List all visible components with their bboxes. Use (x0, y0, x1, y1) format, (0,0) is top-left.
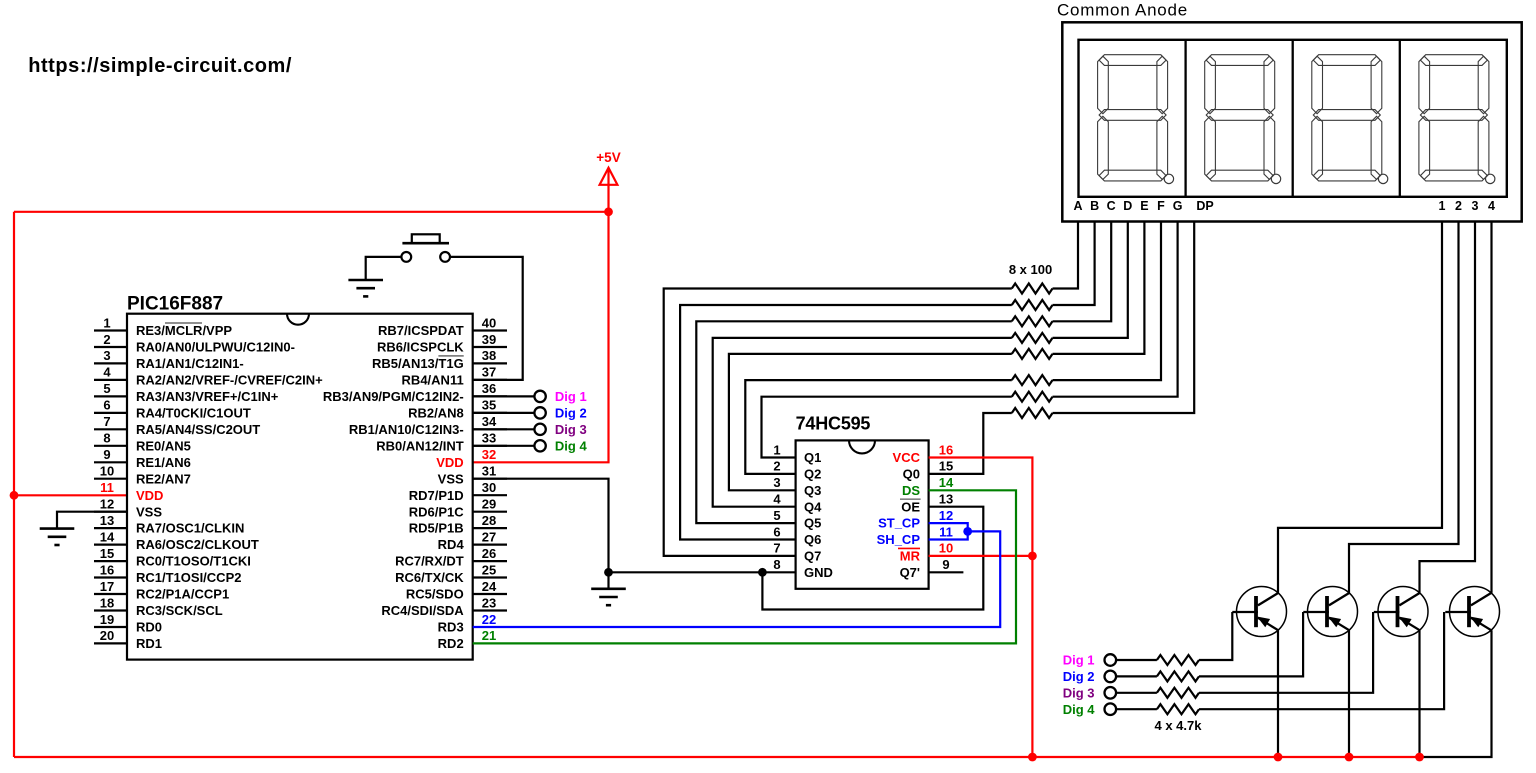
pin 19 RD0 (94, 612, 162, 635)
wire display pin 2 to transistor Q2 collector (1349, 222, 1459, 593)
wire button right to RB4 pin37 (450, 257, 523, 380)
svg-text:RA1/AN1/C12IN1-: RA1/AN1/C12IN1- (136, 356, 244, 371)
wire transistor Q3 emitter to rail (1418, 630, 1420, 757)
pin 39 RB6/ICSPCLK (377, 332, 507, 355)
pin 36 RB3/AN9/PGM/C12IN2- (323, 381, 507, 404)
wire transistor Q4 emitter to rail (1420, 630, 1492, 757)
node Dig 3 terminal (bottom) (1063, 685, 1116, 700)
svg-text:B: B (1090, 199, 1099, 213)
svg-text:RC0/T1OSO/T1CKI: RC0/T1OSO/T1CKI (136, 554, 251, 569)
pin 5 Q5 (74HC595) (773, 508, 821, 531)
push button S1 (401, 234, 450, 261)
wire MR pin10 to +5V (red) (929, 555, 1033, 557)
wire Dig 3 to resistor (1116, 692, 1157, 694)
wire VCC pin16 to +5V (red) (929, 458, 1033, 758)
pin 22 RD3 (438, 612, 497, 635)
pin 33 RB0/AN12/INT (376, 431, 507, 454)
node Dig 2 terminal (RB2) (473, 406, 587, 421)
svg-text:C: C (1107, 199, 1116, 213)
svg-text:RC5/SDO: RC5/SDO (406, 587, 464, 602)
pin 13 OE (74HC595) (901, 492, 953, 515)
pin 20 RD1 (94, 628, 162, 651)
svg-text:RE3/MCLR/VPP: RE3/MCLR/VPP (136, 323, 232, 338)
svg-text:RB5/AN13/T1G: RB5/AN13/T1G (372, 356, 464, 371)
wire resistor to display pin G (1053, 222, 1178, 397)
wire VDD pin32 to +5V (red) (473, 212, 609, 462)
wire base Q1 to resistor (1199, 612, 1232, 660)
pin 28 RD5/P1B (409, 513, 507, 536)
svg-text:RD1: RD1 (136, 636, 162, 651)
pin 27 RD4 (438, 529, 507, 552)
svg-text:VDD: VDD (436, 455, 463, 470)
pin 8 GND (74HC595) (773, 557, 833, 580)
svg-text:VSS: VSS (136, 504, 162, 519)
svg-text:MR: MR (900, 549, 921, 564)
overline OE (900, 498, 921, 500)
junction VCC bottom rail node (1028, 753, 1037, 762)
svg-text:4 x 4.7k: 4 x 4.7k (1155, 718, 1203, 733)
svg-text:Common Anode: Common Anode (1057, 1, 1188, 20)
wire display pin 3 to transistor Q3 collector (1420, 222, 1476, 593)
pin 1 Q1 (74HC595) (773, 442, 821, 465)
svg-text:3: 3 (103, 348, 110, 363)
wire GND pin8 to ground node (609, 571, 796, 573)
wire Q6 to resistor (segment B) (680, 305, 1012, 540)
svg-text:A: A (1073, 199, 1082, 213)
svg-text:Dig 4: Dig 4 (555, 438, 588, 453)
wire VSS pin31 to ground rail (473, 479, 609, 573)
overline T1G (438, 355, 463, 357)
svg-text:RE1/AN6: RE1/AN6 (136, 455, 191, 470)
svg-text:26: 26 (482, 546, 496, 561)
pin 12 VSS (94, 497, 162, 520)
pin 6 RA4/T0CKI/C1OUT (94, 398, 251, 421)
display DS1 4-digit 7-segment outer body (1062, 22, 1521, 221)
svg-text:GND: GND (804, 565, 833, 580)
ic U1 PIC16F887 body (127, 294, 473, 660)
svg-text:+5V: +5V (596, 150, 620, 165)
svg-text:RC3/SCK/SCL: RC3/SCK/SCL (136, 603, 223, 618)
junction VSS/GND node (604, 568, 613, 577)
svg-text:8: 8 (103, 431, 110, 446)
wire Dig 1 to resistor (1116, 659, 1157, 661)
svg-text:RA7/OSC1/CLKIN: RA7/OSC1/CLKIN (136, 521, 244, 536)
wire RD3 pin22 to shift clocks (blue) (473, 531, 1001, 627)
wire Q5 to resistor (segment C) (696, 321, 1012, 523)
wire resistor to display pin DP (1053, 222, 1195, 414)
svg-text:1: 1 (773, 442, 780, 457)
svg-text:9: 9 (942, 557, 949, 572)
svg-text:12: 12 (939, 508, 953, 523)
svg-text:Dig 4: Dig 4 (1063, 702, 1096, 717)
svg-text:18: 18 (100, 595, 114, 610)
svg-text:VCC: VCC (893, 450, 921, 465)
svg-text:28: 28 (482, 513, 496, 528)
transistor Q4 PNP (1445, 587, 1499, 637)
svg-text:14: 14 (100, 529, 115, 544)
svg-text:RD0: RD0 (136, 620, 162, 635)
wire Q1 to resistor (segment G) (762, 397, 1012, 458)
pin 9 Q7' (74HC595) (900, 557, 950, 580)
svg-text:RB4/AN11: RB4/AN11 (402, 373, 464, 388)
svg-text:12: 12 (100, 497, 114, 512)
pin 21 RD2 (438, 628, 497, 651)
svg-text:RA2/AN2/VREF-/CVREF/C2IN+: RA2/AN2/VREF-/CVREF/C2IN+ (136, 373, 323, 388)
wire resistor to display pin B (1053, 222, 1095, 306)
wire transistor Q2 emitter to rail (1348, 630, 1350, 757)
wire Q0 to resistor (segment DP) (929, 413, 1012, 474)
svg-text:Q1: Q1 (804, 450, 821, 465)
wire resistor to display pin A (1053, 222, 1079, 289)
wire base Q4 to resistor (1199, 612, 1444, 709)
svg-text:2: 2 (773, 459, 780, 474)
svg-text:RA3/AN3/VREF+/C1IN+: RA3/AN3/VREF+/C1IN+ (136, 389, 279, 404)
pin 7 RA5/AN4/SS/C2OUT (94, 414, 260, 437)
pin 18 RC3/SCK/SCL (94, 595, 223, 618)
display digit 2 segments (1205, 55, 1281, 184)
pin 1 RE3/MCLR/VPP (94, 315, 232, 338)
wire ST_CP pin12 (blue) (929, 523, 968, 531)
wire base Q2 to resistor (1199, 612, 1303, 676)
svg-text:Dig 1: Dig 1 (555, 389, 587, 404)
svg-text:3: 3 (773, 475, 780, 490)
wire RD2 pin21 to DS (green) (473, 490, 1016, 643)
svg-text:11: 11 (100, 480, 114, 495)
svg-text:17: 17 (100, 579, 114, 594)
wire display pin 4 to transistor Q4 collector (1490, 222, 1492, 593)
resistor R5 100 (1012, 349, 1053, 359)
svg-text:RA5/AN4/SS/C2OUT: RA5/AN4/SS/C2OUT (136, 422, 260, 437)
pin 31 VSS (438, 464, 507, 487)
pin 2 RA0/AN0/ULPWU/C12IN0- (94, 332, 295, 355)
wire +5V top rail (red) (14, 211, 609, 213)
resistor R8 100 (1012, 408, 1053, 418)
pin 35 RB2/AN8 (408, 398, 507, 421)
svg-text:6: 6 (773, 524, 780, 539)
svg-text:7: 7 (103, 414, 110, 429)
wire VDD pin11 to left rail (red) (14, 494, 127, 496)
pin 12 ST_CP (74HC595) (878, 508, 953, 531)
pin 10 RE2/AN7 (94, 464, 191, 487)
node Dig 2 terminal (bottom) (1063, 669, 1116, 684)
resistor R10 4.7k (1157, 671, 1199, 681)
resistor R3 100 (1012, 316, 1053, 326)
junction rail T3 emitter (1415, 753, 1424, 762)
svg-text:13: 13 (939, 492, 953, 507)
ground (button) (348, 279, 383, 282)
svg-text:Dig 3: Dig 3 (1063, 685, 1095, 700)
wire base Q3 to resistor (1199, 612, 1373, 693)
svg-text:Dig 1: Dig 1 (1063, 653, 1095, 668)
svg-text:22: 22 (482, 612, 496, 627)
svg-text:32: 32 (482, 447, 496, 462)
svg-text:Q2: Q2 (804, 467, 821, 482)
svg-text:DP: DP (1196, 199, 1213, 213)
svg-text:F: F (1157, 199, 1165, 213)
display cell divider 2 (1292, 40, 1294, 197)
svg-text:RB6/ICSPCLK: RB6/ICSPCLK (377, 340, 464, 355)
svg-text:RE0/AN5: RE0/AN5 (136, 438, 191, 453)
pin 30 RD7/P1D (409, 480, 507, 503)
pin 25 RC6/TX/CK (395, 562, 507, 585)
svg-text:Q3: Q3 (804, 483, 821, 498)
pin 32 VDD (436, 447, 496, 470)
resistor R11 4.7k (1157, 688, 1199, 698)
svg-text:27: 27 (482, 529, 496, 544)
svg-text:RC6/TX/CK: RC6/TX/CK (395, 570, 464, 585)
svg-text:RD6/P1C: RD6/P1C (409, 504, 465, 519)
svg-text:39: 39 (482, 332, 496, 347)
svg-text:Dig 3: Dig 3 (555, 422, 587, 437)
svg-text:Q0: Q0 (903, 467, 920, 482)
svg-text:RB0/AN12/INT: RB0/AN12/INT (376, 438, 463, 453)
svg-text:4: 4 (773, 492, 781, 507)
svg-text:VDD: VDD (136, 488, 163, 503)
svg-text:RA6/OSC2/CLKOUT: RA6/OSC2/CLKOUT (136, 537, 259, 552)
pin 37 RB4/AN11 (402, 365, 507, 388)
pin 2 Q2 (74HC595) (773, 459, 821, 482)
pin 4 Q4 (74HC595) (773, 492, 822, 515)
svg-text:D: D (1123, 199, 1132, 213)
junction VDD pin11 node (10, 491, 19, 500)
svg-text:SH_CP: SH_CP (877, 532, 921, 547)
svg-text:OE: OE (901, 499, 920, 514)
ground (74HC595 GND) (591, 572, 626, 605)
pin 14 DS (74HC595) (902, 475, 954, 498)
junction MR/VCC node (1028, 552, 1037, 561)
svg-text:5: 5 (773, 508, 780, 523)
pin 5 RA3/AN3/VREF+/C1IN+ (94, 381, 279, 404)
svg-text:3: 3 (1472, 199, 1479, 213)
svg-text:4: 4 (1488, 199, 1495, 213)
svg-text:34: 34 (482, 414, 497, 429)
pin 4 RA2/AN2/VREF-/CVREF/C2IN+ (94, 365, 323, 388)
overline MCLR (165, 322, 202, 324)
svg-text:RB1/AN10/C12IN3-: RB1/AN10/C12IN3- (349, 422, 464, 437)
svg-text:74HC595: 74HC595 (796, 414, 871, 434)
display cell divider 1 (1184, 40, 1186, 197)
wire +5V left rail (red) (13, 212, 15, 757)
resistor R7 100 (1012, 392, 1053, 402)
junction +5V arrow node (604, 207, 613, 216)
pin 6 Q6 (74HC595) (773, 524, 821, 547)
svg-text:Q7': Q7' (900, 565, 920, 580)
svg-text:RE2/AN7: RE2/AN7 (136, 471, 191, 486)
svg-text:Dig 2: Dig 2 (1063, 669, 1095, 684)
power +5V supply symbol (596, 150, 620, 212)
svg-text:RC4/SDI/SDA: RC4/SDI/SDA (381, 603, 464, 618)
pin 9 RE1/AN6 (94, 447, 191, 470)
pin 14 RA6/OSC2/CLKOUT (94, 529, 259, 552)
svg-text:RB2/AN8: RB2/AN8 (408, 406, 464, 421)
svg-text:E: E (1140, 199, 1148, 213)
pin 8 RE0/AN5 (94, 431, 191, 454)
svg-text:33: 33 (482, 431, 496, 446)
wire +5V bottom rail (red) (14, 756, 1420, 758)
pin 23 RC4/SDI/SDA (381, 595, 507, 618)
svg-text:G: G (1173, 199, 1183, 213)
wire Dig 4 to resistor (1116, 708, 1157, 710)
node Dig 3 terminal (RB1) (473, 422, 587, 437)
svg-text:40: 40 (482, 315, 496, 330)
wire display pin 1 to transistor Q1 collector (1278, 222, 1442, 593)
wire Q2 to resistor (segment F) (745, 380, 1012, 474)
ground (VSS pin12) (40, 527, 75, 530)
pin 11 SH_CP (74HC595) (877, 524, 953, 547)
wire Q3 to resistor (segment E) (729, 354, 1012, 490)
pin 26 RC7/RX/DT (395, 546, 507, 569)
svg-text:2: 2 (1455, 199, 1462, 213)
svg-text:RD3: RD3 (438, 620, 464, 635)
svg-text:15: 15 (100, 546, 114, 561)
pin 16 VCC (74HC595) (893, 442, 954, 465)
wire transistor Q1 emitter to rail (1277, 630, 1279, 757)
svg-text:13: 13 (100, 513, 114, 528)
svg-text:RA4/T0CKI/C1OUT: RA4/T0CKI/C1OUT (136, 406, 251, 421)
wire resistor to display pin D (1053, 222, 1128, 338)
ic U2 74HC595 body (796, 414, 929, 589)
svg-text:RD4: RD4 (438, 537, 465, 552)
resistor R4 100 (1012, 333, 1053, 343)
wire button left to ground (366, 257, 402, 280)
node Dig 1 terminal (bottom) (1063, 653, 1116, 668)
svg-text:Q4: Q4 (804, 499, 822, 514)
svg-text:23: 23 (482, 595, 496, 610)
display digit 3 segments (1312, 55, 1388, 184)
svg-text:7: 7 (773, 541, 780, 556)
resistor R1 100 (1012, 284, 1053, 294)
svg-text:35: 35 (482, 398, 496, 413)
wire Q7 to resistor (segment A) (664, 289, 1012, 556)
wire OE pin13 to GND (762, 507, 983, 610)
svg-text:8: 8 (773, 557, 780, 572)
display digit 1 segments (1098, 55, 1174, 184)
wire resistor to display pin E (1053, 222, 1145, 354)
display cell divider 3 (1399, 40, 1401, 197)
pin 15 Q0 (74HC595) (903, 459, 954, 482)
svg-text:25: 25 (482, 562, 496, 577)
svg-text:16: 16 (939, 442, 953, 457)
svg-text:38: 38 (482, 348, 496, 363)
wire resistor to display pin F (1053, 222, 1162, 381)
pin 3 RA1/AN1/C12IN1- (94, 348, 244, 371)
svg-text:RB3/AN9/PGM/C12IN2-: RB3/AN9/PGM/C12IN2- (323, 389, 464, 404)
svg-text:VSS: VSS (438, 471, 464, 486)
svg-text:16: 16 (100, 562, 114, 577)
svg-text:20: 20 (100, 628, 114, 643)
junction GND/OE node (758, 568, 767, 577)
overline MR (898, 547, 920, 549)
svg-text:30: 30 (482, 480, 496, 495)
svg-text:DS: DS (902, 483, 920, 498)
svg-text:14: 14 (939, 475, 954, 490)
svg-text:Q6: Q6 (804, 532, 821, 547)
pin 3 Q3 (74HC595) (773, 475, 821, 498)
pin 9 Q7' stub (929, 571, 964, 573)
svg-text:21: 21 (482, 628, 496, 643)
svg-text:36: 36 (482, 381, 496, 396)
pin 40 RB7/ICSPDAT (378, 315, 507, 338)
svg-text:5: 5 (103, 381, 110, 396)
svg-text:RD7/P1D: RD7/P1D (409, 488, 464, 503)
transistor Q3 PNP (1374, 587, 1428, 637)
node Dig 1 terminal (RB3) (473, 389, 587, 404)
pin 34 RB1/AN10/C12IN3- (349, 414, 507, 437)
pin 7 Q7 (74HC595) (773, 541, 821, 564)
svg-text:Q5: Q5 (804, 516, 821, 531)
pin 29 RD6/P1C (409, 497, 507, 520)
resistor R6 100 (1012, 375, 1053, 385)
svg-text:RC1/T1OSI/CCP2: RC1/T1OSI/CCP2 (136, 570, 241, 585)
svg-text:RB7/ICSPDAT: RB7/ICSPDAT (378, 323, 464, 338)
svg-text:RC2/P1A/CCP1: RC2/P1A/CCP1 (136, 587, 229, 602)
svg-text:1: 1 (103, 315, 110, 330)
transistor Q2 PNP (1303, 587, 1357, 637)
pin 16 RC1/T1OSI/CCP2 (94, 562, 241, 585)
svg-text:29: 29 (482, 497, 496, 512)
pin 13 RA7/OSC1/CLKIN (94, 513, 244, 536)
resistor R12 4.7k (1157, 704, 1199, 714)
labels display digit pins 1 2 3 4 (1439, 199, 1496, 213)
pin 15 RC0/T1OSO/T1CKI (94, 546, 251, 569)
wire Q4 to resistor (segment D) (713, 338, 1012, 507)
svg-text:15: 15 (939, 459, 953, 474)
pin 10 MR (74HC595) (900, 541, 953, 564)
svg-text:Q7: Q7 (804, 549, 821, 564)
junction clock node (blue) (963, 527, 972, 536)
display digit 4 segments (1419, 55, 1495, 184)
pin 17 RC2/P1A/CCP1 (94, 579, 229, 602)
svg-text:RD2: RD2 (438, 636, 464, 651)
labels display segment pins A-G DP (1073, 199, 1213, 213)
svg-text:1: 1 (1439, 199, 1446, 213)
resistor R9 4.7k (1157, 655, 1199, 665)
node Dig 4 terminal (RB0) (473, 438, 588, 453)
svg-text:RA0/AN0/ULPWU/C12IN0-: RA0/AN0/ULPWU/C12IN0- (136, 340, 295, 355)
junction rail T2 emitter (1345, 753, 1354, 762)
svg-text:4: 4 (103, 365, 111, 380)
pin 24 RC5/SDO (406, 579, 507, 602)
svg-text:31: 31 (482, 464, 496, 479)
wire SH_CP pin11 (blue) (929, 531, 968, 539)
junction rail T1 emitter (1274, 753, 1283, 762)
svg-text:PIC16F887: PIC16F887 (127, 294, 223, 315)
svg-text:9: 9 (103, 447, 110, 462)
resistor R2 100 (1012, 300, 1053, 310)
pin 38 RB5/AN13/T1G (372, 348, 507, 371)
pin 11 VDD (100, 480, 163, 503)
svg-text:2: 2 (103, 332, 110, 347)
svg-text:RC7/RX/DT: RC7/RX/DT (395, 554, 464, 569)
svg-text:https://simple-circuit.com/: https://simple-circuit.com/ (28, 55, 292, 77)
wire resistor to display pin C (1053, 222, 1112, 322)
svg-text:24: 24 (482, 579, 497, 594)
svg-text:RD5/P1B: RD5/P1B (409, 521, 464, 536)
svg-text:11: 11 (939, 524, 953, 539)
wire Dig 2 to resistor (1116, 675, 1157, 677)
transistor Q1 PNP (1232, 587, 1286, 637)
display inner frame (1079, 40, 1507, 197)
svg-text:8 x 100: 8 x 100 (1009, 262, 1052, 277)
svg-text:37: 37 (482, 365, 496, 380)
svg-text:19: 19 (100, 612, 114, 627)
svg-text:Dig 2: Dig 2 (555, 406, 587, 421)
svg-text:6: 6 (103, 398, 110, 413)
svg-text:10: 10 (100, 464, 114, 479)
node Dig 4 terminal (bottom) (1063, 702, 1116, 717)
svg-text:10: 10 (939, 541, 953, 556)
svg-text:ST_CP: ST_CP (878, 516, 920, 531)
